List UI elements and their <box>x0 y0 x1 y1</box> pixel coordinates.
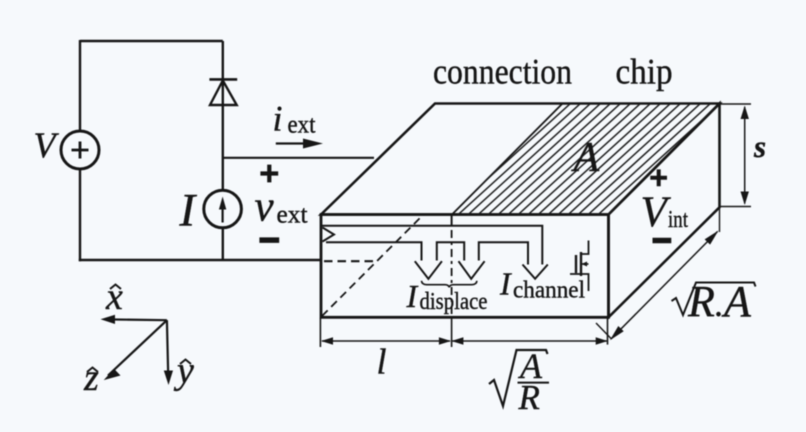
label I_channel <box>499 266 585 304</box>
svg-text:displace: displace <box>420 289 488 315</box>
l dimension arrow <box>321 337 451 345</box>
svg-text:v: v <box>255 184 275 231</box>
svg-text:chip: chip <box>616 52 673 92</box>
wire diode branch upper <box>222 41 224 79</box>
arrow i_ext <box>276 139 323 149</box>
svg-text:s: s <box>753 129 766 164</box>
label plus v_ext <box>260 165 278 183</box>
svg-text:.: . <box>714 284 723 324</box>
arrowhead I_displace 1 <box>415 261 442 279</box>
label sqrt(R.A) <box>672 277 756 326</box>
dashed hidden edge diagonal <box>322 215 424 317</box>
svg-text:R: R <box>518 378 540 417</box>
witness line right <box>607 318 609 345</box>
chevron current entry <box>323 228 335 242</box>
box front face <box>321 215 609 318</box>
wire I source to bottom <box>222 228 224 261</box>
label plus V_int <box>650 169 667 186</box>
node junction to box (i_ext wire) <box>223 157 374 159</box>
wire top horizontal <box>80 40 223 42</box>
s dimension ticks <box>720 103 752 105</box>
transistor M1 <box>570 241 589 292</box>
label i_ext <box>273 99 316 139</box>
svg-text:A: A <box>721 277 752 326</box>
label v_ext <box>255 184 308 231</box>
node division line connection/chip <box>452 104 562 215</box>
duct bottom line <box>326 242 528 264</box>
arrowhead I_displace 2 <box>459 261 485 279</box>
diode D1 <box>209 79 237 105</box>
svg-text:z: z <box>83 357 99 399</box>
svg-text:l: l <box>377 342 387 382</box>
s dimension arrow <box>741 106 749 206</box>
svg-text:channel: channel <box>513 278 585 304</box>
svg-text:R: R <box>687 277 715 326</box>
voltage source V <box>61 131 99 169</box>
sqrt(R.A) witness lower <box>596 323 612 339</box>
dashed hidden wire <box>324 260 373 262</box>
svg-text:ext: ext <box>288 112 316 139</box>
witness line left <box>319 318 321 347</box>
duct top line <box>322 226 542 265</box>
label minus v_ext <box>259 237 279 243</box>
svg-text:int: int <box>668 207 688 233</box>
underbrace displace <box>422 281 477 288</box>
svg-text:A: A <box>571 135 600 181</box>
label y hat <box>173 350 194 392</box>
y axis <box>167 320 168 379</box>
center line dashed <box>451 230 453 317</box>
box right face <box>609 104 720 318</box>
sqrt(R.A) dimension arrow <box>610 231 719 341</box>
wire diode to junction <box>222 79 224 191</box>
sqrt(R.A) witness vertical <box>719 207 721 232</box>
arrowhead I_channel <box>523 265 548 279</box>
sqrt(A/R) dimension arrow <box>451 337 607 345</box>
wire left vertical upper <box>79 40 81 132</box>
label z hat <box>83 357 99 399</box>
x axis <box>106 318 167 321</box>
box top face <box>321 104 720 215</box>
svg-text:I: I <box>406 278 419 314</box>
wire left vertical lower <box>79 169 81 261</box>
wire bottom horizontal <box>79 259 322 261</box>
center line solid top <box>451 215 453 227</box>
label V_int <box>641 189 689 236</box>
label x hat <box>105 276 123 318</box>
svg-text:i: i <box>273 99 283 139</box>
label minus V_int <box>653 238 672 244</box>
current source I <box>204 190 242 228</box>
svg-text:I: I <box>179 184 198 236</box>
svg-text:ext: ext <box>277 202 308 229</box>
svg-text:I: I <box>499 266 512 302</box>
label I_displace <box>406 278 488 315</box>
z axis <box>108 320 167 375</box>
svg-text:connection: connection <box>433 52 572 92</box>
axes origin <box>101 315 174 385</box>
svg-text:x: x <box>105 276 123 318</box>
witness line middle <box>451 318 453 347</box>
label sqrt(A/R) <box>489 346 549 417</box>
svg-text:y: y <box>173 350 194 392</box>
hatching chip area A <box>380 93 806 222</box>
